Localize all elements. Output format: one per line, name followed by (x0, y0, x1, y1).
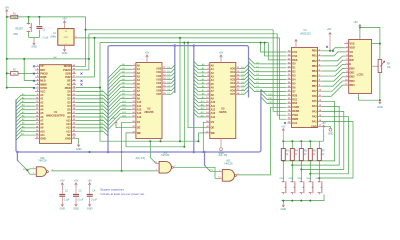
svg-text:PHI2O: PHI2O (63, 69, 71, 72)
wire to NAND U6B input (150, 141, 156, 163)
svg-text:RESB: RESB (64, 65, 71, 68)
svg-text:PB0: PB0 (312, 50, 317, 53)
wire RAM CS from gate U6A (122, 122, 132, 171)
wire U3 CS row down to bus (203, 122, 205, 152)
svg-text:SW4: SW4 (297, 178, 303, 180)
svg-text:PA4: PA4 (312, 105, 317, 108)
svg-text:GND: GND (73, 208, 79, 211)
svg-text:I/O0: I/O0 (230, 67, 235, 70)
+5V above resistor row (282, 129, 285, 133)
ground circle below VIA (329, 128, 332, 131)
svg-text:RS0: RS0 (292, 94, 297, 97)
svg-text:CS1: CS1 (292, 51, 297, 54)
svg-text:PA5: PA5 (312, 100, 317, 103)
svg-text:CS2: CS2 (292, 55, 297, 58)
svg-text:GND: GND (76, 148, 82, 151)
svg-text:U1: U1 (54, 110, 58, 114)
wire VIA CA rows to LCD top pins (322, 48, 345, 51)
svg-text:SW3: SW3 (288, 178, 294, 180)
oscillator X1 1MHz (58, 29, 74, 46)
ground below pot/LCD (379, 100, 382, 104)
bus top horizontal (109, 46, 248, 98)
svg-text:I/O5: I/O5 (230, 86, 235, 89)
svg-text:I/O4: I/O4 (156, 82, 161, 85)
svg-text:NC: NC (67, 134, 71, 137)
svg-text:4: 4 (156, 162, 157, 164)
IC U3 62256 RAM (210, 63, 236, 139)
power +5V top-left (6, 10, 9, 14)
svg-text:GND: GND (311, 125, 317, 128)
wire +5V rail top-left (RESET net) (7, 17, 86, 66)
svg-text:DB1: DB1 (350, 72, 356, 75)
bus vertical left of U2 (108, 46, 109, 152)
ground below SW1/C1 (33, 41, 36, 45)
svg-text:SW6: SW6 (315, 178, 321, 180)
svg-text:DB4: DB4 (350, 84, 356, 87)
wire VCC of U1 to +5V (7, 87, 35, 89)
svg-text:GND: GND (60, 208, 66, 211)
svg-text:6: 6 (174, 166, 175, 168)
svg-text:28C256: 28C256 (144, 110, 154, 114)
svg-text:2: 2 (33, 173, 34, 175)
svg-text:RESB: RESB (292, 110, 299, 113)
wire A14 from bus to U6C input (206, 166, 220, 171)
svg-text:+5V: +5V (111, 117, 116, 120)
resistor R2 (11, 72, 19, 76)
svg-text:A10: A10 (211, 101, 216, 104)
IC U5 W65C22 VIA (292, 47, 318, 127)
wire U2 A0-A14 to bus (108, 66, 132, 79)
svg-text:NMIB: NMIB (40, 83, 47, 86)
svg-text:A14: A14 (66, 123, 71, 126)
bus stub to gate U6C (A14) (205, 152, 206, 166)
+5V above U4 VIA (295, 43, 297, 47)
svg-text:10k: 10k (13, 17, 16, 19)
wire U3 A0-A14 to bus (194, 61, 206, 65)
wire gate U6A output (51, 170, 156, 172)
svg-text:74HC00: 74HC00 (38, 161, 47, 163)
svg-text:PA7: PA7 (312, 90, 317, 93)
svg-text:A14: A14 (211, 116, 216, 119)
svg-text:+5V: +5V (5, 6, 10, 9)
bus address/data main loop (16, 100, 260, 153)
wire VIA PA lines down to buttons (283, 101, 334, 161)
wire VIA ports to LCD (322, 56, 345, 61)
wire VIA RS0-RS3 from bus (261, 89, 287, 95)
wire U2 WE row to H146.8 (126, 133, 184, 147)
svg-text:RWB: RWB (292, 118, 298, 121)
wire LCD VSS to ground (358, 93, 380, 100)
svg-text:DB3: DB3 (350, 80, 356, 83)
svg-text:SOB: SOB (65, 72, 71, 75)
svg-text:62256: 62256 (219, 110, 227, 114)
+5V above U3 (220, 59, 222, 63)
svg-text:CS: CS (137, 121, 141, 124)
svg-text:8: 8 (237, 173, 238, 175)
capacitor C1 (36, 26, 42, 28)
svg-text:RW: RW (350, 59, 355, 62)
svg-text:A12: A12 (66, 130, 71, 133)
svg-text:I/O2: I/O2 (156, 75, 161, 78)
svg-text:Include at least one per power: Include at least one per power net. (101, 192, 146, 196)
svg-text:PB2: PB2 (312, 60, 317, 63)
svg-text:PB1: PB1 (312, 55, 317, 58)
bus vertical RS lines right of U3 (260, 89, 261, 152)
svg-text:SW2: SW2 (279, 178, 285, 180)
wire PHI2 clock line (76, 76, 95, 78)
wire middle verticals from clock/RW lines (179, 38, 181, 141)
svg-text:74HC00: 74HC00 (161, 155, 170, 157)
svg-text:0.1uF: 0.1uF (64, 199, 70, 201)
svg-text:3k3: 3k3 (13, 73, 16, 75)
bypass capacitor C3 (75, 183, 78, 187)
svg-text:+5V: +5V (87, 180, 92, 183)
svg-text:1MHz: 1MHz (50, 37, 57, 39)
svg-text:U3: U3 (221, 107, 225, 111)
svg-text:+5V: +5V (145, 52, 150, 55)
wire U1 D0-D7 and A12-A15 to bus (76, 92, 108, 97)
svg-text:A13: A13 (211, 112, 216, 115)
bypass capacitor C2 (61, 183, 64, 187)
nand gate U6C (222, 170, 234, 182)
wire gate U6B output to U6C input (174, 167, 220, 178)
svg-text:PHI2: PHI2 (65, 76, 71, 79)
svg-text:+5V: +5V (74, 180, 79, 183)
svg-text:WE: WE (211, 132, 215, 135)
svg-text:A12: A12 (211, 108, 216, 111)
svg-text:A12: A12 (137, 108, 142, 111)
svg-text:3: 3 (52, 169, 53, 171)
wire +5V rail above pull-up resistors (283, 140, 323, 142)
svg-text:I/O1: I/O1 (156, 71, 161, 74)
wire resistor bottoms and button tops (282, 141, 284, 148)
wire U3 OE row from vertical (188, 127, 206, 129)
svg-text:A10: A10 (40, 130, 45, 133)
+5V pullup for U2 OE (115, 121, 118, 125)
potentiometer R7 contrast (372, 65, 376, 67)
wire U2 D0-D7 to data bus (166, 65, 175, 69)
svg-text:VP: VP (40, 65, 44, 68)
nand gate U6A (36, 167, 46, 177)
svg-text:I/O0: I/O0 (156, 67, 161, 70)
wire gate U6C output to VIA CS (237, 107, 287, 175)
wire VIA D0-D7 from data bus (249, 58, 287, 64)
ground below U3 (220, 139, 222, 148)
pushbutton SW1 (reset) (27, 22, 30, 24)
LCD bottom pin (357, 93, 359, 95)
svg-text:PHI2: PHI2 (292, 114, 298, 117)
svg-text:+5V: +5V (281, 125, 286, 128)
svg-text:PA1: PA1 (312, 120, 317, 123)
svg-text:RDY: RDY (40, 69, 46, 72)
svg-text:I/O3: I/O3 (156, 78, 161, 81)
svg-text:0.1uF: 0.1uF (91, 199, 97, 201)
wire A15 from bus to U6A inputs (19, 162, 28, 171)
svg-text:U2: U2 (147, 107, 151, 111)
svg-text:I/O5: I/O5 (156, 86, 161, 89)
bus vertical right of U2 (data) (174, 46, 175, 93)
svg-text:RESET: RESET (16, 28, 24, 30)
wire +5V left vertical (6, 17, 8, 88)
svg-text:GND: GND (281, 208, 287, 211)
svg-text:PB7: PB7 (312, 85, 317, 88)
IC U2 28C256 EEPROM (136, 63, 162, 139)
svg-text:SYNC: SYNC (40, 87, 47, 90)
wire reset button / C1 net (28, 16, 30, 18)
svg-text:W65C22S: W65C22S (300, 33, 311, 35)
svg-text:W65C02S6TPG: W65C02S6TPG (46, 113, 65, 117)
svg-text:SW5: SW5 (306, 178, 312, 180)
svg-text:A11: A11 (137, 105, 142, 108)
svg-text:VO: VO (350, 51, 354, 54)
bus vertical left of U3 (193, 46, 194, 152)
svg-text:+5V: +5V (327, 28, 332, 31)
svg-text:LCD1: LCD1 (357, 72, 364, 76)
svg-text:GND: GND (62, 52, 68, 55)
wire SOB/top line 2 (76, 69, 89, 71)
svg-text:A13: A13 (66, 127, 71, 130)
svg-text:OE: OE (137, 127, 141, 130)
svg-text:PA2: PA2 (312, 115, 317, 118)
svg-text:CS: CS (211, 121, 215, 124)
svg-text:DB2: DB2 (350, 76, 356, 79)
wire button bottom rail to GND (282, 195, 325, 201)
wire pot bottom to ground rail (379, 73, 381, 101)
resistor R1 (11, 15, 18, 18)
svg-text:GND: GND (87, 208, 93, 211)
svg-text:+5V: +5V (62, 18, 67, 21)
wire ROM WE row (198, 132, 205, 134)
svg-text:0.1uF: 0.1uF (77, 199, 83, 201)
svg-text:+5V: +5V (321, 122, 326, 125)
ground right of U1 bottom (76, 139, 79, 143)
svg-text:GND: GND (218, 152, 224, 155)
svg-text:VSS: VSS (350, 42, 355, 45)
svg-text:+5V: +5V (60, 180, 65, 183)
nand gate U6B (159, 161, 171, 173)
svg-text:+5V: +5V (219, 52, 224, 55)
IC LCD1 display module (349, 40, 372, 94)
svg-text:A14: A14 (137, 116, 142, 119)
svg-text:VCC: VCC (40, 90, 45, 93)
svg-text:PB4: PB4 (312, 70, 317, 73)
svg-text:A13: A13 (137, 112, 142, 115)
svg-text:U6C: U6C (226, 161, 231, 163)
svg-text:RS2: RS2 (292, 102, 297, 105)
+5V above LCD (359, 24, 362, 28)
no-connect marks near VIA CA wires (326, 46, 328, 48)
wire RWB line (76, 87, 100, 89)
bus stub to gate U6A (A15) (17, 152, 18, 162)
svg-text:1: 1 (33, 167, 34, 169)
svg-text:0.1uF: 0.1uF (43, 38, 49, 40)
svg-text:DB0: DB0 (350, 67, 356, 70)
svg-text:5: 5 (156, 169, 157, 171)
ground below U2 (160, 139, 162, 142)
svg-text:PB6: PB6 (312, 80, 317, 83)
wire RAM-GND/RW bottom horizontal (100, 140, 198, 142)
+5V pullup on LCD feed row (329, 32, 332, 36)
wire VIA GND pin to ground circle (322, 127, 331, 129)
svg-text:A11: A11 (40, 134, 45, 137)
svg-text:U6B: U6B (163, 152, 168, 154)
ground below oscillator (64, 45, 66, 47)
svg-text:I/O1: I/O1 (230, 71, 235, 74)
svg-text:SW1: SW1 (13, 34, 19, 36)
svg-text:A11: A11 (211, 105, 216, 108)
svg-text:I/O7: I/O7 (230, 93, 235, 96)
svg-text:VDD: VDD (350, 47, 355, 50)
bypass capacitor C4 (88, 183, 91, 187)
svg-text:GND: GND (31, 46, 37, 49)
svg-text:PB3: PB3 (312, 65, 317, 68)
ground below buttons (282, 203, 285, 207)
no-connect marks U1 (33, 65, 35, 67)
svg-text:PHI1O: PHI1O (40, 72, 48, 75)
wire +5V to RDY and NMIB (7, 58, 89, 60)
svg-text:A[0..15]: A[0..15] (136, 156, 146, 160)
svg-text:U6A: U6A (40, 157, 45, 160)
svg-text:RS1: RS1 (292, 98, 297, 101)
svg-text:RWB: RWB (65, 87, 71, 90)
wire LCD top-right pin to +5V loop (372, 43, 380, 45)
svg-text:IRQB: IRQB (40, 76, 46, 79)
svg-text:CA1: CA1 (292, 122, 298, 125)
pull-up resistors R3-R7 and buttons SW2-SW6 (281, 149, 285, 161)
wire VIA top-left pins from RWB line (261, 43, 287, 52)
svg-text:NC: NC (67, 83, 71, 86)
wire U3 D0-D7 to data bus (240, 64, 248, 68)
svg-text:PA6: PA6 (312, 95, 317, 98)
+5V right end of rail (322, 125, 325, 129)
svg-text:WE: WE (137, 132, 141, 135)
svg-text:I/O7: I/O7 (156, 93, 161, 96)
svg-text:I/O4: I/O4 (230, 82, 235, 85)
svg-text:A10: A10 (137, 101, 142, 104)
svg-text:CS2B: CS2B (292, 106, 299, 109)
svg-text:OE: OE (211, 127, 215, 130)
svg-text:MLB: MLB (40, 80, 46, 83)
svg-text:PA3: PA3 (312, 110, 317, 113)
wire +5V feed to LCD and contrast pot (359, 28, 361, 40)
svg-text:GND: GND (65, 138, 71, 141)
svg-text:+5V: +5V (353, 21, 358, 24)
svg-text:GND: GND (40, 138, 46, 141)
svg-text:I/O3: I/O3 (230, 78, 235, 81)
svg-text:RES: RES (292, 59, 297, 62)
wire IRQB pullup through R2 (7, 72, 11, 74)
wire RESB to VIA (branch of reset net) (86, 30, 287, 112)
svg-text:I/O2: I/O2 (230, 75, 235, 78)
+5V above U2 (146, 59, 148, 63)
svg-text:GND: GND (328, 132, 334, 135)
wire U2 OE row to +5V (116, 124, 132, 128)
svg-text:A15: A15 (66, 119, 71, 122)
wire U1 A0-A11 to bus (16, 95, 35, 100)
svg-text:74HC00: 74HC00 (224, 163, 233, 165)
svg-text:RS: RS (350, 55, 354, 58)
IC U1 W65C02 CPU (39, 65, 71, 144)
svg-text:PB5: PB5 (312, 75, 317, 78)
svg-text:GND: GND (377, 106, 383, 109)
svg-text:I/O6: I/O6 (230, 89, 235, 92)
svg-text:BE: BE (67, 80, 71, 83)
svg-text:I/O6: I/O6 (156, 89, 161, 92)
svg-text:10: 10 (218, 177, 220, 179)
